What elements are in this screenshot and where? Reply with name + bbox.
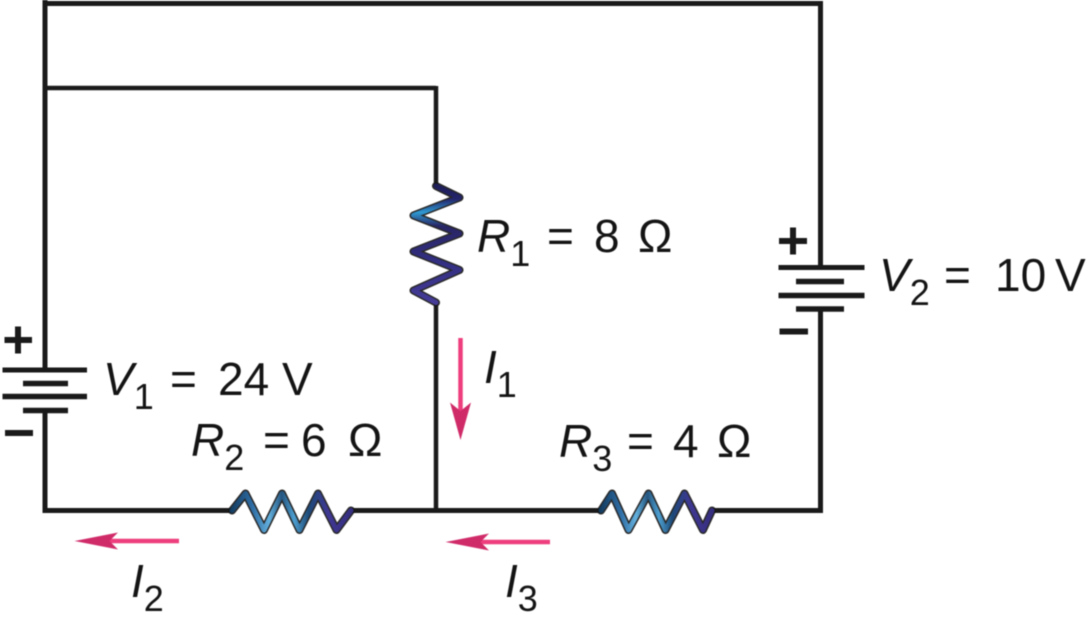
- battery V2 plate short bottom: [796, 306, 844, 312]
- resistor R3 zigzag: [601, 494, 712, 531]
- battery V2 plate long top: [779, 265, 865, 270]
- svg-text:R3=4Ω: R3=4Ω: [559, 415, 751, 479]
- battery V2 plate long bottom: [779, 293, 865, 299]
- current arrow I3 head: [446, 534, 490, 551]
- battery V1 plate long top: [3, 368, 88, 373]
- wire bottom horizontal between R2 and R3: [350, 508, 602, 513]
- current arrow I1 shaft: [458, 338, 463, 412]
- wire left vertical (top segment to battery V1): [43, 0, 48, 368]
- svg-text:V2=10V: V2=10V: [879, 249, 1086, 313]
- wire bottom horizontal right of R3: [711, 508, 823, 513]
- battery V1 minus sign: [5, 430, 33, 436]
- wire inner horizontal branch: [43, 86, 436, 91]
- wire middle vertical below R1: [434, 302, 439, 510]
- resistor R2 zigzag: [232, 494, 351, 531]
- battery V2 plus sign: [779, 228, 807, 255]
- svg-text:R1=8Ω: R1=8Ω: [477, 210, 672, 274]
- svg-text:I2: I2: [131, 555, 164, 619]
- wire right vertical (battery V2 to bottom): [818, 309, 823, 512]
- current arrow I2 shaft: [106, 539, 179, 544]
- battery V1 plus sign: [5, 327, 33, 354]
- battery V1 plate long bottom: [3, 394, 88, 400]
- resistor R3 zigzag shadow: [601, 494, 712, 531]
- resistor R1 zigzag: [414, 186, 460, 303]
- current arrow I3 shaft: [477, 540, 550, 545]
- current arrow I1 head: [450, 403, 471, 441]
- battery V1 plate short bottom: [23, 408, 68, 414]
- battery V2 plate short: [796, 279, 844, 285]
- wire left vertical (battery V1 to bottom): [43, 411, 48, 512]
- svg-text:V1=24V: V1=24V: [103, 353, 313, 417]
- resistor R2 zigzag shadow: [232, 494, 351, 531]
- wire bottom horizontal left of R2: [43, 508, 234, 513]
- svg-text:I1: I1: [484, 341, 517, 405]
- current arrow I2 head: [75, 533, 119, 550]
- battery V1 plate short: [23, 381, 68, 387]
- battery V2 minus sign: [780, 329, 809, 335]
- wire top horizontal: [43, 1, 823, 6]
- svg-text:R2=6Ω: R2=6Ω: [191, 414, 382, 478]
- resistor R1 zigzag shadow: [414, 186, 460, 303]
- wire middle vertical above R1: [434, 86, 439, 187]
- svg-text:I3: I3: [505, 555, 538, 619]
- wire right vertical (top segment to battery V2): [818, 1, 823, 266]
